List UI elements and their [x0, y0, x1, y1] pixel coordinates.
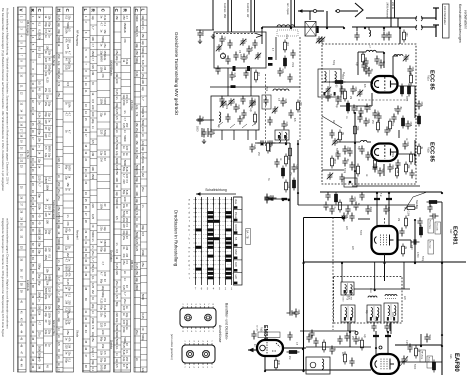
svg-text:UKW: UKW — [234, 224, 238, 231]
svg-text:25u: 25u — [66, 330, 70, 335]
wire — [389, 323, 391, 331]
connector circle — [185, 314, 192, 321]
wire — [210, 86, 300, 88]
capacitor — [263, 97, 268, 106]
svg-text:250: 250 — [135, 154, 139, 159]
svg-text:150k: 150k — [57, 68, 61, 74]
svg-text:10p: 10p — [135, 198, 139, 203]
svg-text:3n: 3n — [91, 238, 95, 241]
svg-text:L: L — [141, 9, 146, 12]
svg-text:5000: 5000 — [141, 294, 145, 300]
svg-text:C23: C23 — [232, 99, 235, 104]
wire — [352, 26, 417, 28]
svg-text:C58: C58 — [409, 122, 412, 127]
svg-text:47k: 47k — [123, 38, 127, 43]
svg-text:30p: 30p — [38, 242, 42, 247]
svg-text:220: 220 — [123, 197, 127, 202]
svg-text:12p: 12p — [141, 86, 145, 91]
svg-text:3n: 3n — [57, 335, 61, 338]
svg-text:5000: 5000 — [342, 297, 344, 303]
capacitor C55 — [350, 86, 355, 95]
wire — [207, 128, 209, 137]
svg-text:4,7: 4,7 — [123, 117, 127, 121]
capacitor C58 — [405, 121, 410, 130]
svg-text:0,1: 0,1 — [68, 358, 72, 362]
svg-text:100: 100 — [91, 36, 95, 41]
svg-text:12p: 12p — [91, 348, 95, 353]
svg-text:0,25: 0,25 — [66, 313, 70, 319]
capacitor — [374, 56, 379, 65]
svg-text:3n: 3n — [115, 130, 119, 133]
capacitor C60 — [363, 118, 368, 127]
svg-text:12p: 12p — [47, 126, 51, 131]
capacitor — [339, 174, 344, 183]
trimmer capacitor C26 — [249, 100, 255, 108]
svg-text:Netzteil: Netzteil — [76, 230, 80, 240]
capacitor 12 — [378, 60, 383, 69]
wire — [392, 56, 394, 75]
wire — [337, 141, 360, 143]
svg-text:150k: 150k — [47, 319, 51, 325]
svg-text:C55: C55 — [354, 87, 357, 92]
svg-text:150k: 150k — [38, 291, 42, 297]
svg-text:5000: 5000 — [91, 231, 95, 237]
capacitor C2 — [381, 32, 386, 41]
svg-text:Schaltrichtung: Schaltrichtung — [205, 188, 227, 192]
capacitor C64 — [387, 164, 392, 173]
wire — [435, 8, 437, 20]
svg-text:NF-Ausg.: NF-Ausg. — [421, 351, 424, 360]
capacitor C30 — [281, 121, 286, 130]
resistor 0,5M — [285, 182, 288, 190]
wire — [357, 52, 359, 75]
svg-text:3n: 3n — [38, 102, 42, 105]
svg-text:ZF-Teil: ZF-Teil — [26, 150, 30, 159]
wire — [297, 140, 299, 205]
ECC85 tube a — [372, 76, 398, 93]
svg-text:12p: 12p — [103, 56, 107, 61]
svg-text:MW: MW — [234, 250, 238, 255]
trimmer capacitor — [403, 54, 409, 62]
svg-text:500p: 500p — [101, 36, 105, 42]
svg-text:220: 220 — [115, 270, 119, 275]
svg-text:0,25: 0,25 — [135, 239, 139, 245]
svg-text:10n: 10n — [333, 347, 336, 352]
svg-text:C52: C52 — [420, 102, 423, 107]
svg-text:10p: 10p — [91, 332, 95, 337]
svg-text:220: 220 — [141, 127, 145, 132]
svg-text:25u: 25u — [57, 206, 61, 211]
wire — [317, 10, 324, 12]
wire — [255, 130, 257, 140]
svg-text:Ferritant. MW: Ferritant. MW — [223, 3, 226, 19]
svg-text:r: r — [189, 267, 190, 271]
capacitor — [384, 127, 389, 136]
svg-text:5000: 5000 — [57, 238, 61, 244]
capacitor 4A7 — [246, 46, 251, 55]
svg-text:500p: 500p — [343, 168, 345, 174]
svg-text:100: 100 — [91, 112, 95, 117]
svg-text:5000: 5000 — [57, 36, 61, 42]
svg-text:220: 220 — [66, 235, 70, 240]
svg-text:250: 250 — [47, 205, 51, 210]
svg-text:15k: 15k — [66, 182, 70, 187]
capacitor C31 — [277, 68, 282, 77]
svg-text:12p: 12p — [141, 40, 145, 45]
svg-text:C31: C31 — [281, 69, 284, 74]
capacitor C66 — [293, 309, 298, 318]
svg-text:EAF80: EAF80 — [453, 353, 459, 372]
wire — [298, 10, 313, 12]
svg-text:8,2k: 8,2k — [103, 305, 107, 311]
svg-text:0,5: 0,5 — [38, 54, 42, 58]
resistor 60 — [335, 81, 343, 84]
mixer box contact circle — [342, 216, 345, 219]
svg-text:25u: 25u — [57, 92, 61, 97]
resistor — [323, 342, 326, 350]
svg-text:0,1: 0,1 — [91, 276, 95, 280]
svg-text:5000: 5000 — [359, 230, 361, 236]
svg-text:0,5: 0,5 — [125, 260, 129, 264]
resistor — [402, 118, 405, 126]
svg-text:1n: 1n — [91, 311, 95, 314]
wire — [366, 17, 417, 19]
IF transformer 1 — [341, 282, 354, 295]
wire — [433, 201, 442, 203]
svg-text:0,1: 0,1 — [125, 350, 129, 354]
resistor — [374, 160, 377, 168]
svg-text:520: 520 — [245, 55, 248, 60]
capacitor — [219, 96, 224, 105]
ECC85 tube b — [372, 144, 398, 162]
table left rail — [13, 7, 15, 372]
svg-text:5000: 5000 — [115, 198, 119, 204]
wire — [387, 331, 389, 354]
wire — [394, 0, 396, 18]
capacitor — [339, 86, 344, 95]
svg-text:8,2k: 8,2k — [135, 147, 139, 153]
svg-text:40: 40 — [115, 184, 119, 187]
resistor 0,5M — [407, 207, 415, 210]
EAF80 area parts — [379, 346, 382, 349]
capacitor C62 — [402, 141, 407, 150]
svg-text:12p: 12p — [91, 15, 95, 20]
svg-text:12p: 12p — [68, 320, 72, 325]
svg-text:8,2k: 8,2k — [123, 28, 127, 34]
svg-text:220: 220 — [91, 64, 95, 69]
svg-text:0,25: 0,25 — [115, 137, 119, 143]
resistor 150 — [403, 32, 406, 40]
capacitor — [251, 331, 256, 340]
svg-text:6AB: 6AB — [201, 117, 204, 122]
svg-text:0,5: 0,5 — [103, 298, 107, 302]
decoupling parts right of FM box — [416, 101, 421, 110]
capacitor 5000 — [424, 334, 429, 343]
capacitor 10n — [329, 346, 334, 355]
trimmer capacitor — [325, 86, 331, 94]
volume control box — [306, 357, 330, 374]
svg-text:220: 220 — [115, 79, 119, 84]
svg-text:8,2k: 8,2k — [57, 217, 61, 223]
coil — [368, 296, 377, 298]
svg-text:5000: 5000 — [38, 346, 42, 352]
capacitor C69 — [353, 336, 358, 345]
svg-text:H: H — [56, 9, 61, 12]
svg-text:100: 100 — [47, 88, 51, 93]
svg-text:2M: 2M — [397, 218, 399, 221]
wire — [227, 68, 229, 96]
wire — [383, 27, 385, 31]
svg-text:25u: 25u — [135, 330, 139, 335]
coil — [369, 30, 371, 36]
svg-text:100: 100 — [46, 45, 50, 50]
svg-text:220: 220 — [101, 330, 105, 335]
svg-text:150k: 150k — [291, 62, 293, 68]
resistor — [401, 86, 404, 94]
svg-text:C15: C15 — [233, 73, 236, 78]
svg-text:220: 220 — [38, 176, 42, 181]
wire — [399, 361, 442, 363]
wire — [201, 128, 203, 137]
wire — [247, 130, 249, 140]
svg-text:100: 100 — [38, 235, 42, 240]
svg-text:30p: 30p — [91, 119, 95, 124]
Schaltrichtung arrow — [196, 193, 236, 195]
wire — [250, 0, 252, 32]
capacitor — [325, 192, 330, 201]
wire — [441, 262, 443, 375]
svg-text:0,5: 0,5 — [141, 232, 145, 236]
svg-text:80p: 80p — [115, 302, 119, 307]
svg-text:250: 250 — [115, 170, 119, 175]
svg-text:3n: 3n — [115, 63, 119, 66]
capacitor — [274, 159, 279, 168]
wire — [371, 93, 373, 106]
resistor — [408, 86, 411, 94]
pushbutton switch matrix — [196, 197, 232, 285]
svg-text:5000: 5000 — [123, 135, 127, 141]
svg-text:40: 40 — [141, 327, 145, 330]
resistor 8k — [339, 132, 342, 140]
wire — [397, 18, 399, 27]
svg-text:2000: 2000 — [201, 31, 204, 37]
svg-text:6800: 6800 — [103, 240, 107, 246]
svg-text:40: 40 — [38, 358, 42, 361]
MW antenna coil box — [214, 32, 266, 68]
svg-text:5A - 7B: 5A - 7B — [246, 230, 250, 239]
capacitor C60 — [411, 239, 420, 244]
svg-text:220: 220 — [115, 312, 119, 317]
svg-text:47k: 47k — [68, 337, 72, 342]
capacitor — [349, 162, 354, 171]
wire — [384, 254, 386, 281]
svg-text:30p: 30p — [47, 230, 51, 235]
svg-text:40: 40 — [91, 224, 95, 227]
capacitor C53 — [407, 66, 412, 75]
resistor — [254, 114, 257, 122]
extra ECH81 area density — [323, 202, 328, 211]
svg-text:1M: 1M — [417, 348, 420, 351]
svg-text:Aus: Aus — [234, 199, 238, 204]
resistor — [344, 354, 347, 362]
svg-text:150k: 150k — [285, 34, 287, 40]
capacitor C71 — [401, 356, 406, 365]
svg-text:10p: 10p — [141, 146, 145, 151]
svg-text:0,25: 0,25 — [135, 246, 139, 252]
svg-text:250: 250 — [57, 54, 61, 59]
svg-text:C46: C46 — [268, 196, 271, 201]
resistor — [282, 168, 285, 176]
capacitor C25 — [249, 98, 254, 107]
switch contacts top bus — [314, 10, 317, 13]
capacitor — [349, 213, 354, 222]
svg-text:2M: 2M — [125, 246, 129, 250]
svg-text:C24: C24 — [237, 105, 240, 110]
svg-text:3n: 3n — [123, 110, 127, 113]
EM84 parts — [289, 351, 297, 354]
resistor — [418, 116, 421, 124]
mixer parts — [284, 42, 287, 50]
svg-text:m: m — [188, 246, 190, 249]
svg-text:80p: 80p — [38, 130, 42, 135]
svg-text:40: 40 — [91, 297, 95, 300]
capacitor C28 — [280, 98, 285, 107]
svg-text:30p: 30p — [141, 15, 145, 20]
svg-text:80p: 80p — [38, 281, 42, 286]
svg-text:5000: 5000 — [68, 165, 72, 171]
capacitor 40 — [342, 158, 347, 167]
svg-text:4,7: 4,7 — [91, 258, 95, 262]
svg-text:30p: 30p — [38, 274, 42, 279]
svg-text:12p: 12p — [47, 112, 51, 117]
IF transformer 3 — [367, 305, 381, 322]
svg-text:1000: 1000 — [368, 105, 371, 111]
wire — [294, 0, 296, 27]
svg-text:500p: 500p — [135, 232, 139, 238]
capacitor C44 — [291, 164, 296, 173]
svg-text:220: 220 — [47, 288, 51, 293]
svg-text:40: 40 — [135, 184, 139, 187]
svg-text:47k: 47k — [57, 82, 61, 87]
svg-text:100: 100 — [141, 79, 145, 84]
trimmer capacitor — [255, 52, 261, 60]
svg-text:15k: 15k — [38, 311, 42, 316]
capacitor — [268, 195, 277, 200]
wire — [261, 27, 263, 44]
svg-text:4,7: 4,7 — [91, 26, 95, 30]
svg-text:C65: C65 — [345, 214, 348, 219]
svg-text:0,5: 0,5 — [47, 133, 51, 137]
svg-text:0,1: 0,1 — [125, 100, 129, 104]
svg-text:250: 250 — [91, 263, 95, 268]
svg-text:Rö1b: Rö1b — [427, 147, 430, 153]
capacitor — [372, 164, 377, 173]
svg-text:2M: 2M — [68, 344, 72, 348]
capacitor C59 — [372, 110, 377, 119]
svg-text:3n: 3n — [57, 175, 61, 178]
svg-text:0,25: 0,25 — [405, 340, 407, 345]
capacitor C — [365, 152, 370, 161]
svg-text:150k: 150k — [91, 173, 95, 179]
wire — [383, 52, 385, 68]
capacitor — [376, 113, 381, 122]
capacitor — [287, 74, 292, 83]
svg-text:6800: 6800 — [405, 96, 407, 102]
svg-text:15k: 15k — [141, 33, 145, 38]
svg-text:Skala: Skala — [76, 330, 80, 337]
svg-text:Drucktasten in Ruhestellung: Drucktasten in Ruhestellung — [174, 210, 179, 267]
svg-text:250: 250 — [57, 182, 61, 187]
svg-text:150: 150 — [405, 32, 408, 37]
coil — [322, 359, 324, 369]
svg-text:220: 220 — [91, 105, 95, 110]
svg-text:C: C — [333, 207, 336, 209]
wire — [265, 369, 371, 371]
svg-text:0,1: 0,1 — [91, 269, 95, 273]
svg-text:0,25: 0,25 — [141, 313, 145, 319]
svg-text:15k: 15k — [46, 281, 50, 286]
wire — [275, 37, 277, 60]
ground — [198, 39, 202, 44]
svg-text:0,25: 0,25 — [46, 77, 50, 83]
capacitor — [233, 52, 238, 61]
svg-text:L: L — [83, 9, 88, 12]
svg-text:KW: KW — [234, 262, 238, 267]
coil — [394, 55, 403, 56]
capacitor 4000 — [351, 105, 356, 114]
svg-text:6800: 6800 — [115, 332, 119, 338]
svg-text:100: 100 — [125, 146, 129, 151]
svg-text:6800: 6800 — [38, 228, 42, 234]
resistor — [289, 148, 292, 156]
svg-text:8,2k: 8,2k — [38, 112, 42, 118]
resistor — [405, 218, 408, 226]
wire — [383, 164, 385, 176]
svg-text:47k: 47k — [101, 73, 105, 78]
ground — [211, 34, 215, 39]
svg-text:(von unten gesehen): (von unten gesehen) — [170, 334, 174, 360]
IF coupling coils — [385, 295, 397, 297]
svg-text:4,7: 4,7 — [38, 321, 42, 325]
svg-text:Oszillator: Oszillator — [109, 250, 113, 262]
capacitor C67 — [383, 206, 388, 215]
resistor — [361, 340, 364, 348]
wire — [254, 0, 256, 32]
svg-text:8,2k: 8,2k — [135, 71, 139, 77]
svg-text:12p: 12p — [141, 141, 145, 146]
svg-text:150k: 150k — [46, 184, 50, 190]
svg-text:mit Roehrenvoltmeter gegen Cha: mit Roehrenvoltmeter gegen Chassis gemes… — [6, 218, 10, 329]
svg-text:0,5: 0,5 — [57, 342, 61, 346]
svg-text:R40: R40 — [277, 360, 280, 365]
bandfilter connector block 2 — [182, 345, 215, 363]
wire — [376, 192, 378, 226]
wire — [300, 330, 356, 332]
svg-text:500p: 500p — [68, 265, 72, 271]
svg-text:3n: 3n — [135, 358, 139, 361]
svg-text:15k: 15k — [115, 15, 119, 20]
capacitor 1000 — [364, 104, 369, 113]
capacitor 1000 — [335, 96, 340, 105]
svg-text:Bei Kanalwechsler: Anweisungen: Bei Kanalwechsler: Anweisungen (Typ) Bed… — [1, 8, 5, 192]
capacitor C15 — [229, 72, 234, 81]
capacitor C24 — [233, 104, 238, 113]
trimmer capacitor — [319, 36, 325, 44]
svg-text:25u: 25u — [91, 251, 95, 256]
wire — [376, 51, 384, 53]
svg-text:12p: 12p — [115, 358, 119, 363]
wire — [367, 141, 371, 143]
